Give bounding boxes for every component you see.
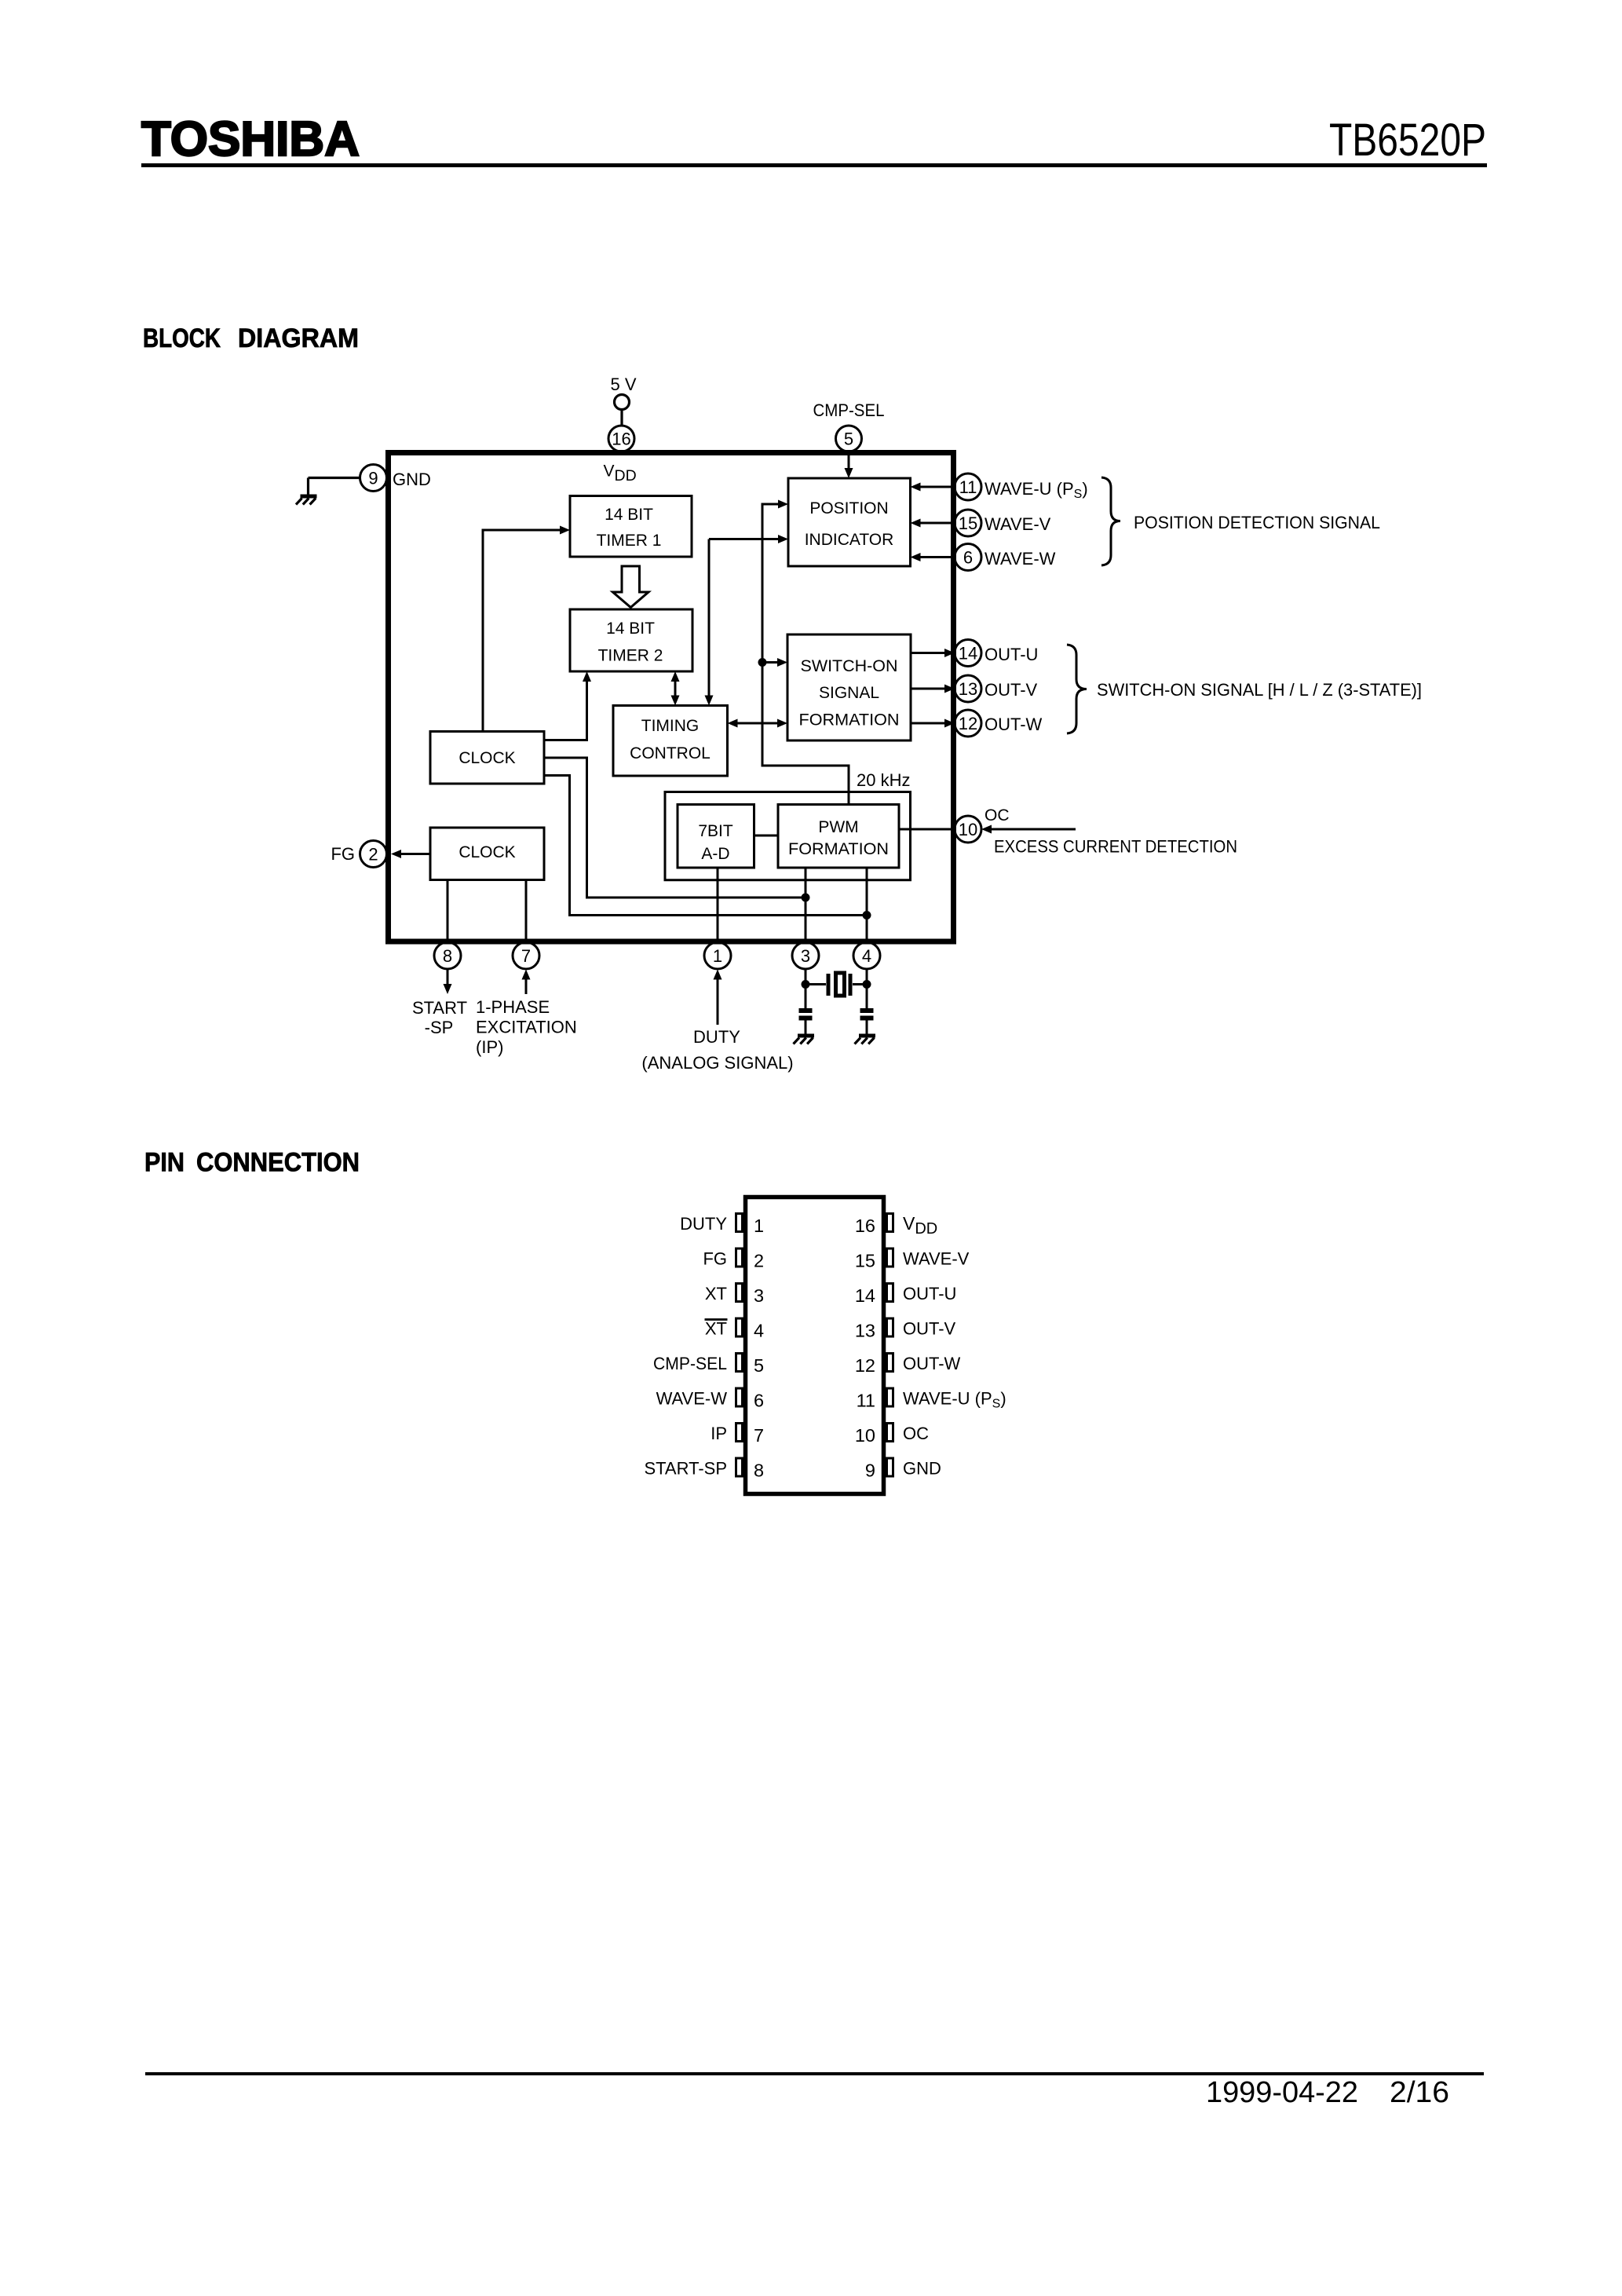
svg-text:4: 4 [862, 946, 871, 966]
wire pin 5 into POSITION INDICATOR with arrow [848, 455, 850, 470]
svg-text:EXCITATION: EXCITATION [476, 1018, 577, 1037]
svg-text:(IP): (IP) [476, 1037, 503, 1057]
wire CLOCK lower to pin 7 [525, 880, 528, 940]
pin circle 16 [608, 426, 634, 452]
svg-text:FG: FG [703, 1249, 727, 1269]
svg-text:(ANALOG SIGNAL): (ANALOG SIGNAL) [641, 1053, 793, 1073]
svg-text:5 V: 5 V [610, 375, 636, 394]
svg-text:BLOCK: BLOCK [143, 324, 221, 353]
svg-text:CMP-SEL: CMP-SEL [653, 1354, 727, 1373]
wire pin 3 external [805, 970, 807, 1009]
pin 9 stub [887, 1458, 893, 1476]
svg-text:TIMER 1: TIMER 1 [597, 532, 662, 550]
pin circle 5 [836, 426, 862, 452]
svg-text:START-SP: START-SP [644, 1459, 727, 1479]
svg-text:OUT-W: OUT-W [985, 715, 1043, 734]
svg-text:FG: FG [331, 844, 355, 864]
wire 20kHz: PWM top to POSITION INDICATOR (arrow into PI) [762, 504, 849, 805]
block 14 BIT TIMER 1 [570, 496, 692, 558]
svg-text:INDICATOR: INDICATOR [805, 531, 894, 549]
svg-text:WAVE-W: WAVE-W [656, 1389, 728, 1409]
block 7BIT A-D [678, 805, 754, 868]
svg-text:9: 9 [368, 469, 378, 488]
crystal resonator [806, 973, 867, 996]
header rule [141, 163, 1487, 167]
hollow arrow timer1 to timer2 [613, 566, 649, 608]
wire SWITCH-ON out to pin 13 [911, 688, 944, 690]
svg-text:TB6520P: TB6520P [1329, 115, 1486, 166]
block 14 BIT TIMER 2 [570, 609, 692, 671]
svg-text:WAVE-W: WAVE-W [985, 549, 1056, 569]
svg-text:OUT-W: OUT-W [903, 1354, 961, 1373]
svg-text:GND: GND [903, 1459, 941, 1479]
ground symbol pin 4 [855, 1034, 876, 1044]
svg-text:CMP-SEL: CMP-SEL [813, 400, 885, 420]
svg-text:7: 7 [521, 946, 531, 966]
wire POSITION INDICATOR to TIMING CONTROL (arrows both ends) [709, 539, 778, 696]
svg-text:TIMING: TIMING [641, 717, 700, 735]
svg-text:OUT-V: OUT-V [903, 1319, 956, 1339]
svg-text:1: 1 [754, 1216, 764, 1236]
wire 7BIT A-D down to pin 1 [717, 868, 719, 939]
wire SWITCH-ON out to pin 12 [911, 722, 944, 725]
wire PWM to pin 10 OC [899, 828, 955, 831]
svg-text:POSITION DETECTION SIGNAL: POSITION DETECTION SIGNAL [1134, 513, 1380, 532]
svg-text:DUTY: DUTY [680, 1214, 727, 1234]
junction dot pin3 net [802, 894, 810, 902]
pin 7 stub [736, 1424, 743, 1442]
pin circle 2 [360, 841, 387, 868]
pin circle 1 [704, 942, 731, 969]
pin circle 9 [360, 465, 387, 492]
block POSITION INDICATOR [788, 478, 911, 566]
svg-text:3: 3 [754, 1285, 764, 1306]
pin 5 stub [736, 1354, 743, 1372]
svg-text:14 BIT: 14 BIT [606, 620, 655, 638]
svg-text:16: 16 [612, 430, 630, 449]
wire FG output arrow to pin 2 [401, 853, 430, 855]
wire PWM down to pin 4 [866, 868, 868, 939]
wire SWITCH-ON out to pin 14 [911, 652, 944, 654]
wire PI input from pin 11 [920, 486, 955, 488]
svg-text:PIN: PIN [144, 1148, 184, 1178]
svg-text:2: 2 [754, 1251, 764, 1271]
pin 12 stub [887, 1354, 893, 1372]
svg-text:SWITCH-ON: SWITCH-ON [801, 657, 898, 675]
svg-text:2: 2 [368, 845, 378, 865]
capacitor at pin 4 [860, 1008, 874, 1034]
pin 10 stub [887, 1424, 893, 1442]
svg-text:A-D: A-D [701, 845, 729, 863]
pin 6 stub [736, 1388, 743, 1406]
svg-text:DIAGRAM: DIAGRAM [238, 324, 359, 353]
svg-text:XT: XT [705, 1319, 727, 1339]
wire junction to SWITCH-ON (arrow) [762, 661, 777, 664]
svg-text:FORMATION: FORMATION [788, 840, 889, 858]
svg-text:1-PHASE: 1-PHASE [476, 997, 550, 1017]
svg-text:OUT-V: OUT-V [985, 680, 1038, 700]
svg-text:WAVE-V: WAVE-V [903, 1249, 970, 1269]
svg-text:1999-04-22: 1999-04-22 [1206, 2076, 1358, 2109]
overline for XT-bar [705, 1318, 728, 1321]
pin 3 stub [736, 1284, 743, 1302]
svg-text:FORMATION: FORMATION [799, 711, 900, 729]
pin 13 stub [887, 1318, 893, 1336]
double arrow TIMER2 - TIMING CONTROL [674, 680, 677, 697]
wire CLOCK to TIMER2 (up arrow) [544, 682, 587, 740]
wire CLOCK lower to pin 8 [447, 880, 449, 940]
pin 1 stub [736, 1214, 743, 1232]
svg-text:8: 8 [754, 1461, 764, 1481]
svg-text:OC: OC [985, 806, 1010, 824]
svg-text:12: 12 [855, 1355, 875, 1376]
svg-text:CLOCK: CLOCK [458, 749, 515, 767]
block CLOCK lower [430, 828, 544, 880]
group box around A-D and PWM [665, 792, 911, 880]
svg-text:WAVE-U (PS): WAVE-U (PS) [903, 1389, 1006, 1411]
pin circle 8 [434, 942, 461, 969]
svg-text:5: 5 [754, 1355, 764, 1376]
wire A-D to PWM [754, 835, 779, 837]
svg-text:DUTY: DUTY [693, 1027, 740, 1047]
pin 2 stub [736, 1249, 743, 1267]
wire OC external with arrow into pin 10 [992, 828, 1076, 831]
svg-text:WAVE-U (PS): WAVE-U (PS) [985, 479, 1088, 501]
svg-text:WAVE-V: WAVE-V [985, 514, 1051, 534]
wire PI input from pin 6 [920, 556, 955, 558]
wire pin 8 external down arrow [447, 970, 449, 985]
svg-text:14 BIT: 14 BIT [605, 506, 653, 524]
ground symbol top-left [296, 478, 317, 505]
pin 14 stub [887, 1284, 893, 1302]
svg-text:13: 13 [959, 679, 977, 699]
wire PI input from pin 15 [920, 522, 955, 525]
svg-text:11: 11 [959, 477, 977, 497]
wire 5V terminal to pin 16 [620, 409, 623, 426]
svg-text:CLOCK: CLOCK [458, 843, 515, 861]
IC package body [746, 1197, 884, 1494]
ground symbol pin 3 [794, 1034, 815, 1044]
svg-text:14: 14 [959, 644, 977, 664]
brace switch-on signal [1067, 645, 1087, 733]
pin 8 stub [736, 1458, 743, 1476]
pin circle 10 [955, 816, 981, 843]
block SWITCH-ON SIGNAL FORMATION [787, 634, 911, 740]
wire ground to pin 9 [309, 477, 360, 479]
block TIMING CONTROL [613, 706, 728, 777]
block CLOCK upper [430, 732, 544, 784]
svg-text:12: 12 [959, 714, 977, 733]
pin 16 stub [887, 1214, 893, 1232]
5 V supply terminal [615, 395, 630, 410]
svg-text:10: 10 [959, 820, 977, 839]
wire pin 7 external up arrow [525, 979, 528, 994]
junction dot pin 4 crystal [863, 980, 871, 989]
svg-text:EXCESS CURRENT DETECTION: EXCESS CURRENT DETECTION [994, 837, 1237, 857]
svg-text:1: 1 [713, 946, 722, 966]
svg-text:TIMER 2: TIMER 2 [598, 647, 663, 665]
pin circle 15 [955, 510, 981, 536]
wire PWM down to pin 3 [805, 868, 807, 939]
main IC outline box [389, 453, 954, 942]
pin 11 stub [887, 1388, 893, 1406]
svg-text:SIGNAL: SIGNAL [819, 684, 879, 702]
wire pin 4 external [866, 970, 868, 1009]
svg-text:OUT-U: OUT-U [903, 1284, 956, 1303]
svg-text:6: 6 [963, 548, 973, 568]
pin circle 6 [955, 544, 981, 571]
svg-text:15: 15 [855, 1251, 875, 1271]
junction dot pin 3 crystal [802, 980, 810, 989]
svg-text:7: 7 [754, 1425, 764, 1446]
junction dot pin4 net [863, 911, 871, 919]
svg-text:9: 9 [865, 1461, 875, 1481]
pin 15 stub [887, 1249, 893, 1267]
svg-text:11: 11 [857, 1391, 875, 1411]
pin circle 7 [513, 942, 539, 969]
pin circle 3 [792, 942, 819, 969]
wire CLOCK line3 down to pin4 net [544, 776, 864, 916]
svg-text:-SP: -SP [425, 1018, 454, 1037]
pin circle 14 [955, 640, 981, 667]
svg-text:CONNECTION: CONNECTION [196, 1148, 360, 1178]
wire clock up to 14BIT TIMER1 input arrow [483, 530, 560, 732]
svg-text:10: 10 [855, 1425, 875, 1446]
pin circle 11 [955, 473, 981, 500]
svg-text:5: 5 [844, 430, 853, 449]
block PWM FORMATION [778, 805, 899, 868]
pin circle 4 [853, 942, 880, 969]
svg-text:GND: GND [393, 470, 431, 489]
svg-text:SWITCH-ON SIGNAL [H / L / Z (3: SWITCH-ON SIGNAL [H / L / Z (3-STATE)] [1097, 680, 1422, 700]
svg-text:7BIT: 7BIT [698, 822, 733, 840]
svg-text:4: 4 [754, 1321, 764, 1341]
svg-text:13: 13 [855, 1321, 875, 1341]
svg-text:XT: XT [705, 1284, 727, 1303]
svg-text:2/16: 2/16 [1390, 2076, 1449, 2109]
svg-text:14: 14 [855, 1285, 875, 1306]
svg-text:8: 8 [443, 946, 452, 966]
junction node on 20kHz line [758, 658, 767, 667]
capacitor at pin 3 [799, 1008, 813, 1034]
footer rule [145, 2072, 1484, 2075]
pin 4 stub [736, 1318, 743, 1336]
svg-text:START: START [412, 998, 467, 1018]
pin circle 13 [955, 675, 981, 702]
svg-text:15: 15 [959, 514, 977, 533]
svg-text:IP: IP [711, 1424, 727, 1443]
svg-text:PWM: PWM [818, 818, 858, 836]
brace position detection [1101, 477, 1120, 565]
svg-text:16: 16 [855, 1216, 875, 1236]
svg-text:POSITION: POSITION [809, 499, 888, 517]
wire pin 1 external up arrow [717, 979, 719, 1025]
svg-text:CONTROL: CONTROL [630, 744, 711, 762]
svg-text:TOSHIBA: TOSHIBA [141, 112, 360, 166]
svg-text:6: 6 [754, 1391, 764, 1411]
svg-text:OC: OC [903, 1424, 929, 1443]
svg-text:20 kHz: 20 kHz [857, 770, 910, 790]
svg-text:3: 3 [801, 946, 810, 966]
wire CLOCK line2 down to pin3 net [544, 758, 803, 898]
double arrow TIMING CONTROL - SWITCH-ON [737, 722, 777, 725]
svg-text:OUT-U: OUT-U [985, 645, 1038, 664]
pin circle 12 [955, 710, 981, 737]
